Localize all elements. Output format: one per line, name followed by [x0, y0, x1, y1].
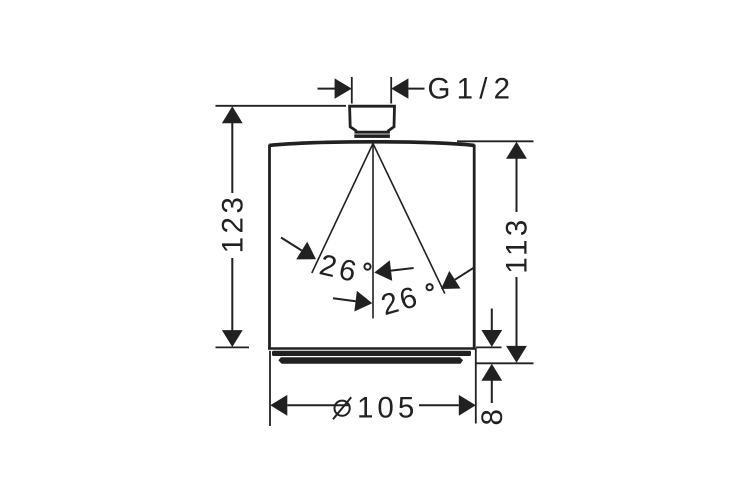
svg-text:123: 123 [217, 194, 250, 254]
shower head body outline [268, 142, 475, 350]
dimension 113: top arrow [506, 142, 527, 159]
svg-text:8: 8 [476, 409, 509, 425]
dimension 123: bottom extension line [216, 346, 250, 348]
G1/2 connector block [350, 106, 395, 132]
connector flange collar [354, 134, 390, 138]
svg-text:105: 105 [357, 392, 418, 425]
dimension 113: dimension line [516, 158, 518, 212]
dimension Ø105: right arrow [419, 395, 476, 416]
G1/2 dimension left arrow [318, 78, 352, 98]
dimension 123: top arrow [222, 106, 243, 123]
annotation arrow at left spray line [281, 238, 316, 260]
annotation arrow pointing left at centre line [374, 260, 413, 281]
right spray angle line [373, 144, 445, 294]
annotation arrow at right spray line [441, 267, 474, 289]
dimension 123: dimension line [231, 123, 233, 194]
dimension Ø105: left extension line [269, 351, 271, 426]
svg-text:113: 113 [501, 216, 534, 274]
annotation arrow pointing right at centre line [333, 291, 372, 312]
dimension 8: upper arrow (pointing down) [481, 309, 502, 347]
dimension 123: bottom arrow [222, 330, 243, 347]
spray face plate bar [272, 351, 471, 356]
spray centre line [372, 144, 374, 319]
G1/2 dimension extension lines [351, 77, 353, 104]
dimension 8: upper extension line [476, 346, 502, 348]
svg-text:G1/2: G1/2 [428, 73, 517, 106]
dimension 123: top extension line [216, 105, 347, 107]
label Ø105: diameter symbol [335, 401, 350, 416]
dimension Ø105: left arrow [270, 395, 350, 416]
G1/2 dimension right arrow [391, 78, 424, 98]
dimension 113: bottom arrow [506, 346, 527, 363]
dimension 113: top extension line [457, 140, 534, 142]
dimension Ø105: right extension line [475, 348, 477, 424]
dimension 8: lower arrow (pointing up) [481, 364, 502, 403]
left spray angle line [312, 144, 373, 274]
spray disc bottom [278, 357, 463, 364]
dimension 113 / 8: bottom extension line [476, 362, 534, 364]
